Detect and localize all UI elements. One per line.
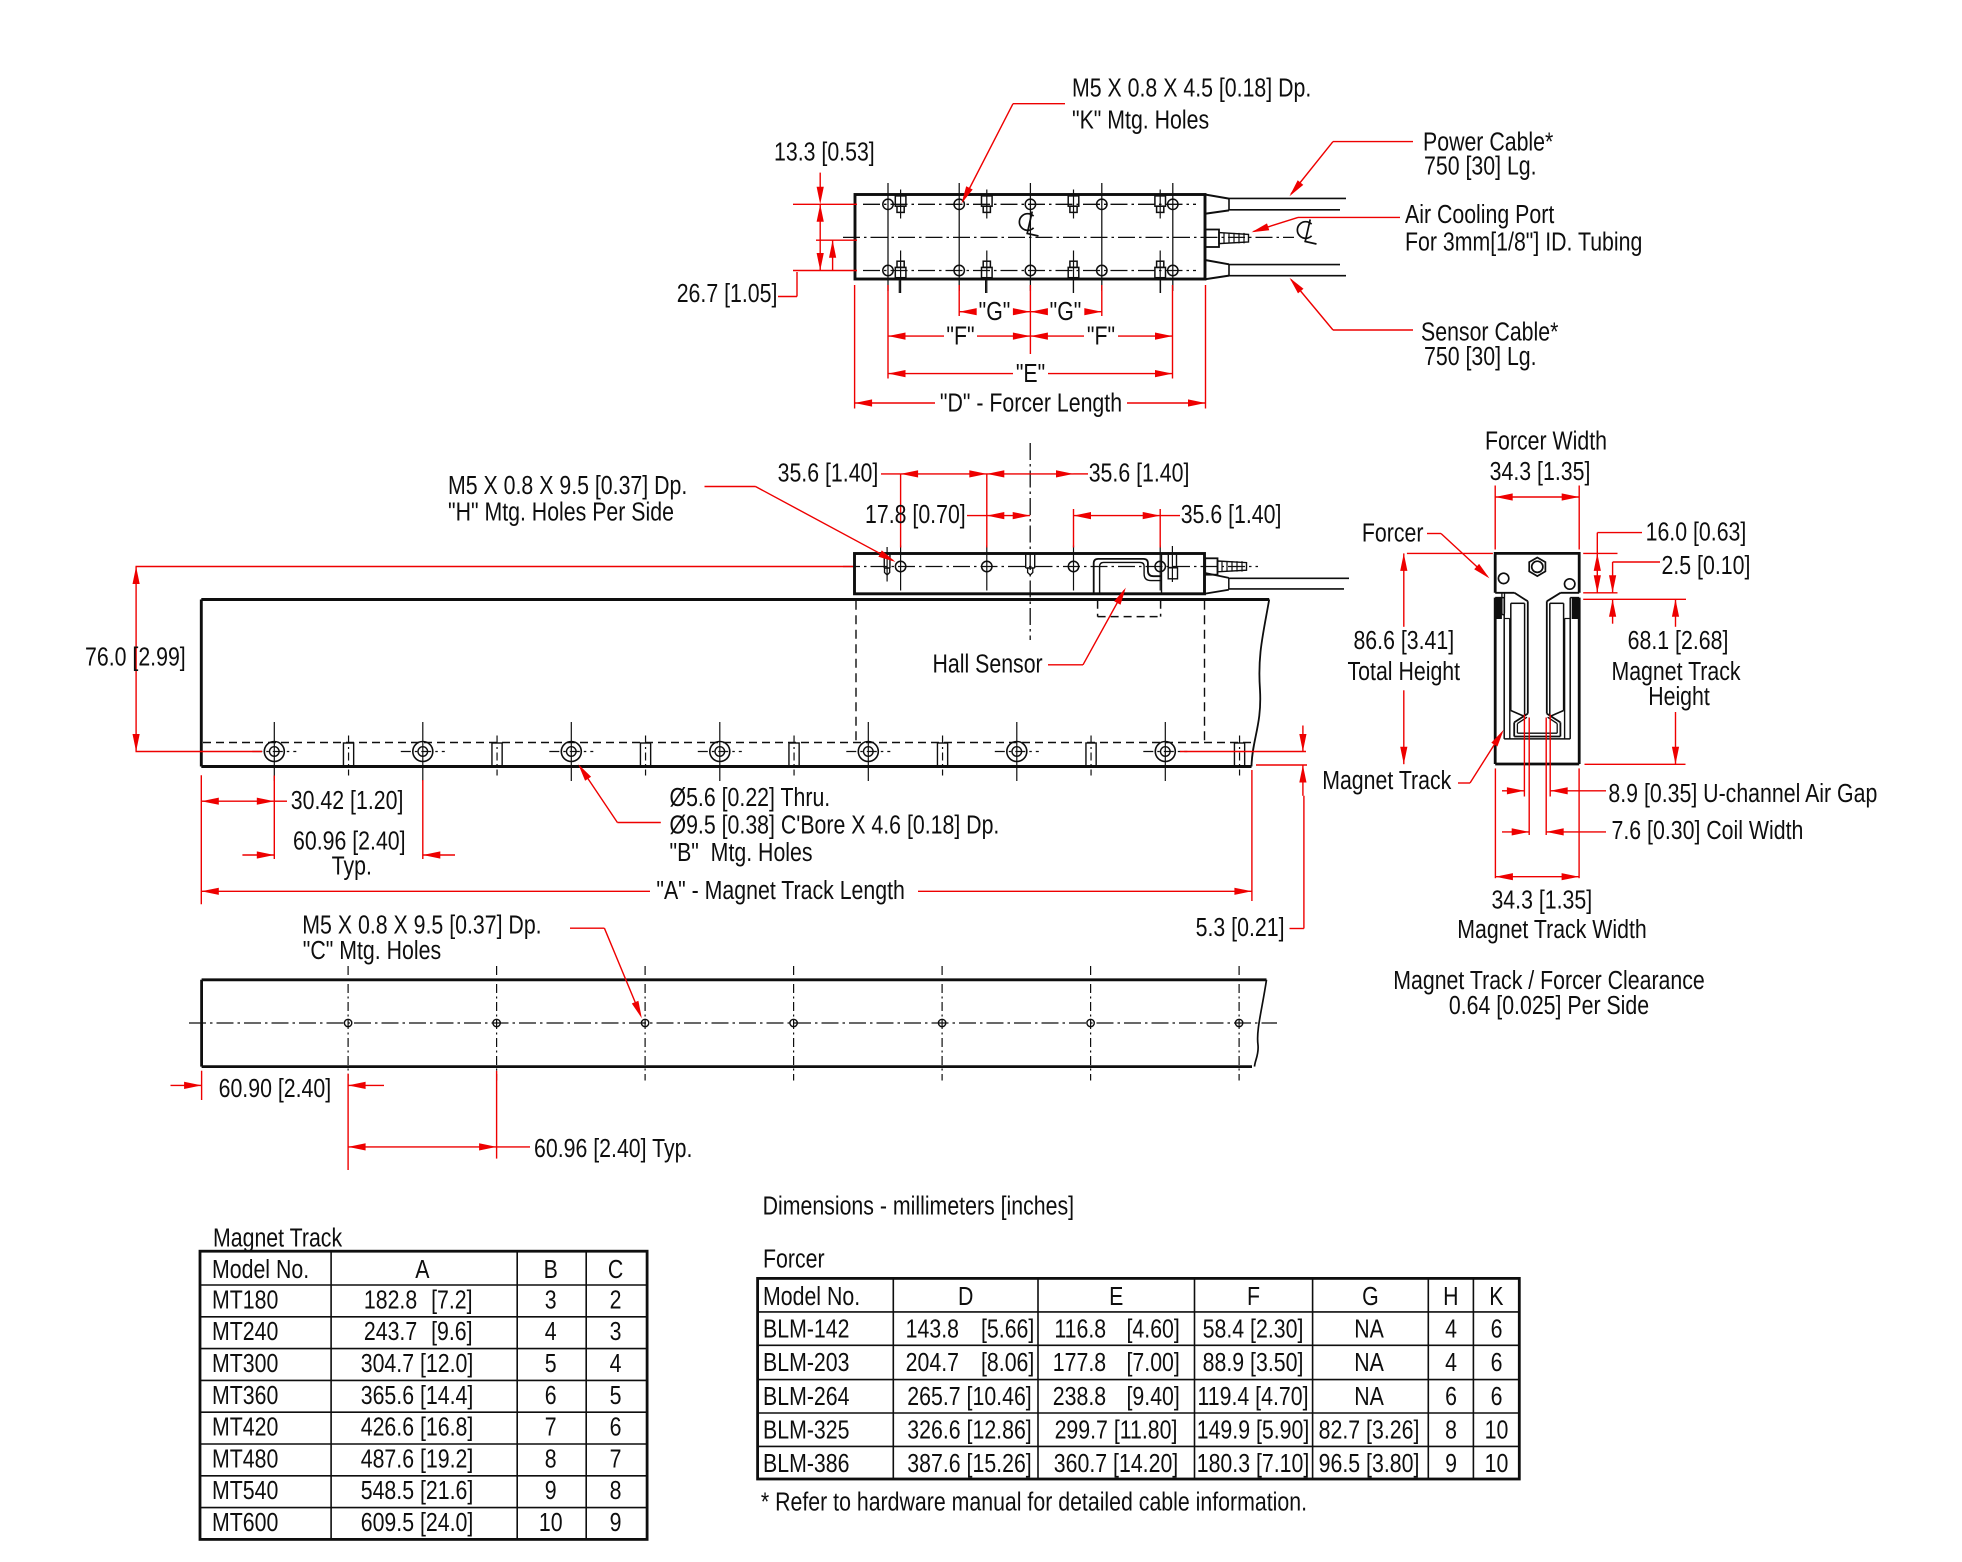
svg-text:7.6 [0.30] Coil Width: 7.6 [0.30] Coil Width [1612, 816, 1804, 846]
svg-text:4: 4 [1445, 1315, 1457, 1345]
svg-text:238.8: 238.8 [1053, 1382, 1106, 1412]
svg-text:10: 10 [539, 1508, 563, 1538]
svg-text:299.7 [11.80]: 299.7 [11.80] [1055, 1416, 1178, 1446]
svg-text:"G": "G" [979, 297, 1011, 327]
svg-text:BLM-203: BLM-203 [763, 1348, 849, 1378]
svg-text:5.3 [0.21]: 5.3 [0.21] [1196, 913, 1285, 943]
svg-text:5: 5 [545, 1349, 557, 1379]
svg-text:Ø9.5 [0.38] C'Bore X 4.6 [0.18: Ø9.5 [0.38] C'Bore X 4.6 [0.18] Dp. [670, 810, 1000, 840]
svg-text:8.9 [0.35] U-channel Air Gap: 8.9 [0.35] U-channel Air Gap [1608, 779, 1877, 809]
svg-text:116.8: 116.8 [1054, 1315, 1106, 1345]
svg-text:MT540: MT540 [212, 1476, 278, 1506]
svg-text:9: 9 [1445, 1449, 1457, 1479]
svg-text:Model No.: Model No. [763, 1282, 860, 1312]
svg-text:For 3mm[1/8"] ID. Tubing: For 3mm[1/8"] ID. Tubing [1405, 228, 1642, 258]
svg-text:265.7 [10.46]: 265.7 [10.46] [907, 1382, 1031, 1412]
svg-text:D: D [958, 1282, 973, 1312]
svg-text:548.5 [21.6]: 548.5 [21.6] [361, 1476, 474, 1506]
svg-text:143.8: 143.8 [906, 1315, 959, 1345]
svg-text:* Refer to hardware manual for: * Refer to hardware manual for detailed … [761, 1487, 1307, 1517]
svg-text:Typ.: Typ. [332, 852, 372, 882]
svg-text:Dimensions - millimeters [inch: Dimensions - millimeters [inches] [763, 1192, 1074, 1222]
svg-text:E: E [1109, 1282, 1123, 1312]
svg-text:Model No.: Model No. [212, 1255, 309, 1285]
svg-text:119.4 [4.70]: 119.4 [4.70] [1198, 1382, 1309, 1412]
svg-text:3: 3 [610, 1317, 622, 1347]
svg-text:"D" - Forcer Length: "D" - Forcer Length [940, 389, 1122, 419]
svg-text:Hall Sensor: Hall Sensor [933, 650, 1043, 680]
svg-text:MT300: MT300 [212, 1349, 278, 1379]
svg-text:"F": "F" [946, 322, 974, 352]
svg-text:Height: Height [1648, 682, 1710, 712]
svg-text:[9.40]: [9.40] [1127, 1382, 1180, 1412]
svg-text:10: 10 [1485, 1449, 1509, 1479]
svg-text:[4.60]: [4.60] [1127, 1315, 1180, 1345]
svg-text:Magnet Track: Magnet Track [213, 1224, 342, 1254]
svg-text:H: H [1443, 1282, 1458, 1312]
svg-text:Air Cooling Port: Air Cooling Port [1405, 200, 1555, 230]
svg-text:6: 6 [1445, 1382, 1457, 1412]
svg-text:"A" - Magnet Track Length: "A" - Magnet Track Length [656, 876, 905, 906]
svg-text:Ø5.6 [0.22] Thru.: Ø5.6 [0.22] Thru. [670, 783, 831, 813]
svg-text:182.8: 182.8 [364, 1285, 417, 1315]
svg-text:Forcer Width: Forcer Width [1485, 427, 1607, 457]
svg-text:96.5 [3.80]: 96.5 [3.80] [1319, 1449, 1420, 1479]
svg-text:4: 4 [1445, 1348, 1457, 1378]
svg-text:58.4 [2.30]: 58.4 [2.30] [1203, 1315, 1304, 1345]
svg-text:30.42 [1.20]: 30.42 [1.20] [291, 786, 404, 816]
svg-text:BLM-386: BLM-386 [763, 1449, 849, 1479]
svg-text:6: 6 [1491, 1382, 1503, 1412]
svg-text:387.6 [15.26]: 387.6 [15.26] [907, 1449, 1031, 1479]
svg-text:Total Height: Total Height [1348, 657, 1461, 687]
svg-text:180.3 [7.10]: 180.3 [7.10] [1197, 1449, 1310, 1479]
svg-text:8: 8 [610, 1476, 622, 1506]
svg-text:17.8 [0.70]: 17.8 [0.70] [865, 500, 966, 530]
svg-text:2: 2 [610, 1285, 622, 1315]
svg-text:68.1 [2.68]: 68.1 [2.68] [1628, 626, 1729, 656]
svg-text:60.96 [2.40] Typ.: 60.96 [2.40] Typ. [534, 1134, 692, 1164]
svg-text:BLM-325: BLM-325 [763, 1416, 849, 1446]
svg-text:F: F [1247, 1282, 1260, 1312]
svg-text:5: 5 [610, 1381, 622, 1411]
svg-text:6: 6 [610, 1413, 622, 1443]
svg-text:M5 X 0.8 X 9.5 [0.37] Dp.: M5 X 0.8 X 9.5 [0.37] Dp. [448, 471, 687, 501]
svg-text:[5.66]: [5.66] [981, 1315, 1034, 1345]
svg-text:204.7: 204.7 [906, 1348, 959, 1378]
svg-text:BLM-142: BLM-142 [763, 1315, 849, 1345]
svg-text:86.6 [3.41]: 86.6 [3.41] [1353, 626, 1454, 656]
svg-text:88.9 [3.50]: 88.9 [3.50] [1203, 1348, 1304, 1378]
svg-text:C: C [608, 1255, 623, 1285]
svg-text:MT600: MT600 [212, 1508, 278, 1538]
svg-text:6: 6 [1491, 1348, 1503, 1378]
svg-text:8: 8 [1445, 1416, 1457, 1446]
svg-text:243.7: 243.7 [364, 1317, 417, 1347]
svg-text:Forcer: Forcer [763, 1244, 825, 1274]
svg-text:365.6 [14.4]: 365.6 [14.4] [361, 1381, 474, 1411]
svg-text:NA: NA [1354, 1348, 1384, 1378]
svg-text:MT360: MT360 [212, 1381, 278, 1411]
svg-text:304.7 [12.0]: 304.7 [12.0] [361, 1349, 474, 1379]
svg-text:0.64 [0.025] Per Side: 0.64 [0.025] Per Side [1449, 991, 1649, 1021]
svg-text:"B" Mtg. Holes: "B" Mtg. Holes [670, 838, 813, 868]
svg-text:750 [30] Lg.: 750 [30] Lg. [1424, 342, 1537, 372]
svg-text:NA: NA [1354, 1315, 1384, 1345]
svg-text:60.90 [2.40]: 60.90 [2.40] [219, 1074, 332, 1104]
svg-text:34.3 [1.35]: 34.3 [1.35] [1491, 886, 1592, 916]
svg-text:609.5 [24.0]: 609.5 [24.0] [361, 1508, 474, 1538]
svg-text:35.6 [1.40]: 35.6 [1.40] [1181, 500, 1282, 530]
svg-text:"E": "E" [1016, 359, 1045, 389]
svg-text:[7.2]: [7.2] [431, 1285, 472, 1315]
svg-text:Magnet Track Width: Magnet Track Width [1457, 915, 1647, 945]
svg-text:"C" Mtg. Holes: "C" Mtg. Holes [303, 936, 441, 966]
svg-text:35.6 [1.40]: 35.6 [1.40] [778, 458, 879, 488]
svg-text:6: 6 [545, 1381, 557, 1411]
svg-text:MT240: MT240 [212, 1317, 278, 1347]
svg-text:326.6 [12.86]: 326.6 [12.86] [907, 1416, 1031, 1446]
svg-text:"K" Mtg. Holes: "K" Mtg. Holes [1072, 106, 1209, 136]
svg-text:"H" Mtg. Holes Per Side: "H" Mtg. Holes Per Side [448, 498, 674, 528]
svg-text:[9.6]: [9.6] [431, 1317, 472, 1347]
svg-text:360.7 [14.20]: 360.7 [14.20] [1054, 1449, 1178, 1479]
svg-text:82.7 [3.26]: 82.7 [3.26] [1319, 1416, 1420, 1446]
svg-text:35.6 [1.40]: 35.6 [1.40] [1089, 458, 1190, 488]
svg-text:B: B [544, 1255, 558, 1285]
svg-text:149.9 [5.90]: 149.9 [5.90] [1197, 1416, 1310, 1446]
svg-text:8: 8 [545, 1444, 557, 1474]
svg-text:MT180: MT180 [212, 1285, 278, 1315]
svg-text:26.7 [1.05]: 26.7 [1.05] [677, 279, 778, 309]
svg-text:Magnet Track: Magnet Track [1322, 766, 1451, 796]
svg-text:M5 X 0.8 X 4.5 [0.18] Dp.: M5 X 0.8 X 4.5 [0.18] Dp. [1072, 73, 1311, 103]
svg-text:7: 7 [545, 1413, 557, 1443]
svg-text:A: A [415, 1255, 429, 1285]
svg-text:MT420: MT420 [212, 1413, 278, 1443]
svg-text:K: K [1489, 1282, 1503, 1312]
svg-text:"G": "G" [1050, 297, 1082, 327]
svg-text:426.6 [16.8]: 426.6 [16.8] [361, 1413, 474, 1443]
svg-text:4: 4 [610, 1349, 622, 1379]
svg-text:10: 10 [1485, 1416, 1509, 1446]
svg-text:G: G [1362, 1282, 1379, 1312]
svg-text:6: 6 [1491, 1315, 1503, 1345]
svg-text:NA: NA [1354, 1382, 1384, 1412]
svg-text:13.3 [0.53]: 13.3 [0.53] [774, 138, 875, 168]
svg-text:"F": "F" [1087, 322, 1115, 352]
svg-text:BLM-264: BLM-264 [763, 1382, 849, 1412]
svg-text:7: 7 [610, 1444, 622, 1474]
svg-text:3: 3 [545, 1285, 557, 1315]
svg-text:[8.06]: [8.06] [981, 1348, 1034, 1378]
svg-text:9: 9 [610, 1508, 622, 1538]
svg-text:9: 9 [545, 1476, 557, 1506]
svg-text:177.8: 177.8 [1053, 1348, 1106, 1378]
svg-text:2.5 [0.10]: 2.5 [0.10] [1662, 551, 1751, 581]
svg-text:76.0 [2.99]: 76.0 [2.99] [85, 643, 186, 673]
svg-text:Forcer: Forcer [1362, 518, 1424, 548]
svg-text:16.0 [0.63]: 16.0 [0.63] [1646, 518, 1747, 548]
svg-text:[7.00]: [7.00] [1127, 1348, 1180, 1378]
svg-text:4: 4 [545, 1317, 557, 1347]
svg-text:MT480: MT480 [212, 1444, 278, 1474]
svg-text:487.6 [19.2]: 487.6 [19.2] [361, 1444, 474, 1474]
svg-text:34.3 [1.35]: 34.3 [1.35] [1490, 457, 1591, 487]
svg-text:750 [30] Lg.: 750 [30] Lg. [1424, 151, 1537, 181]
